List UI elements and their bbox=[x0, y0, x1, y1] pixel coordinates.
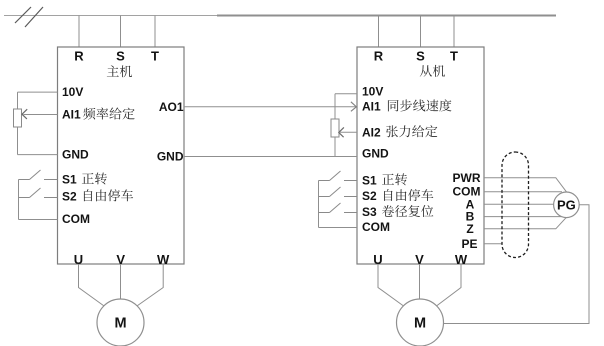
wire PE to shield bbox=[484, 243, 502, 245]
wire pot top vertical (slave) bbox=[334, 94, 336, 119]
wire 10V to potentiometer (slave) bbox=[335, 93, 357, 95]
terminal labels R S T (master) bbox=[74, 49, 159, 64]
inverter U1 master box bbox=[58, 47, 185, 264]
wire 10V to potentiometer (master) bbox=[18, 91, 58, 93]
arrow wiper RP1 bbox=[22, 109, 27, 119]
wire R drop (slave) bbox=[378, 16, 380, 48]
wire PWR to PG bbox=[484, 178, 567, 192]
svg-text:S2: S2 bbox=[62, 190, 77, 204]
terminal labels U V W (slave) bbox=[373, 252, 468, 267]
arrow wiper RP2 bbox=[339, 127, 344, 137]
wire W phase (slave) bbox=[437, 264, 461, 306]
wire GND return (master) bbox=[18, 154, 58, 156]
svg-text:S: S bbox=[116, 49, 125, 64]
switch S1 (slave) bbox=[319, 171, 358, 181]
switch S1 (master) bbox=[19, 170, 58, 180]
terminal labels U V W (master) bbox=[74, 252, 170, 267]
svg-text:COM: COM bbox=[362, 220, 390, 234]
label 卷径复位 bbox=[382, 205, 433, 217]
svg-text:10V: 10V bbox=[62, 85, 83, 99]
wire pot bottom vertical (master) bbox=[17, 127, 19, 155]
svg-text:AI2: AI2 bbox=[362, 125, 381, 139]
switch S2 (master) bbox=[19, 188, 58, 198]
potentiometer RP1 bbox=[14, 109, 22, 127]
power bus L (thick segment) bbox=[217, 15, 556, 17]
svg-text:S3: S3 bbox=[362, 205, 377, 219]
svg-text:PE: PE bbox=[461, 237, 477, 251]
label 正转 (slave) bbox=[382, 173, 407, 185]
wire U phase (master) bbox=[79, 264, 104, 306]
wire S drop (slave) bbox=[420, 16, 422, 48]
svg-text:AI1: AI1 bbox=[362, 100, 381, 114]
wire COM (master) bbox=[19, 219, 58, 221]
svg-text:PWR: PWR bbox=[453, 171, 481, 185]
svg-text:PG: PG bbox=[557, 197, 576, 212]
svg-text:Z: Z bbox=[466, 222, 473, 236]
svg-text:S2: S2 bbox=[362, 189, 377, 203]
power bus L (thin left segment) bbox=[4, 15, 217, 17]
wire COM (slave) bbox=[319, 227, 358, 229]
motor M1 bbox=[97, 299, 144, 346]
svg-text:R: R bbox=[74, 49, 84, 64]
wire W phase (master) bbox=[137, 264, 163, 306]
motor M2 bbox=[397, 299, 444, 346]
svg-text:M: M bbox=[414, 316, 426, 332]
arrow into AI1 bbox=[351, 102, 357, 112]
svg-text:S1: S1 bbox=[62, 173, 77, 187]
wire AI1 wiper (master) bbox=[24, 114, 58, 116]
shield capsule (dashed) bbox=[502, 152, 529, 258]
svg-text:10V: 10V bbox=[362, 85, 383, 99]
svg-text:GND: GND bbox=[62, 148, 89, 162]
svg-text:R: R bbox=[374, 49, 384, 64]
label 自由停车 (slave) bbox=[384, 189, 433, 201]
svg-text:T: T bbox=[151, 49, 159, 64]
terminal labels R S T (slave) bbox=[374, 49, 458, 64]
wire pot top vertical (master) bbox=[17, 92, 19, 109]
switch S3 (slave) bbox=[319, 203, 358, 213]
svg-text:S: S bbox=[416, 49, 425, 64]
wire S drop (master) bbox=[120, 16, 122, 48]
wire V phase (master) bbox=[120, 264, 122, 299]
potentiometer RP2 bbox=[331, 119, 339, 137]
svg-text:AI1: AI1 bbox=[62, 108, 81, 122]
svg-text:GND: GND bbox=[157, 149, 184, 163]
wire switch bus vertical (slave) bbox=[318, 181, 320, 228]
label 自由停车 (master) bbox=[84, 189, 133, 201]
svg-text:COM: COM bbox=[62, 212, 90, 226]
label 主机 (master) bbox=[107, 65, 132, 77]
svg-text:GND: GND bbox=[362, 147, 389, 161]
label 正转 (master) bbox=[82, 172, 107, 184]
label 张力给定 bbox=[386, 125, 437, 137]
svg-text:M: M bbox=[114, 316, 126, 332]
label 从机 (slave) bbox=[420, 65, 445, 77]
wire T drop (slave) bbox=[453, 16, 455, 48]
bus break symbol bbox=[15, 7, 43, 27]
wire pot bottom vertical (slave) bbox=[334, 137, 336, 157]
wire T drop (master) bbox=[154, 16, 156, 48]
wire R drop (master) bbox=[78, 16, 80, 48]
wire GND link bbox=[184, 156, 357, 158]
wire COM to PG bbox=[484, 191, 562, 193]
svg-text:AO1: AO1 bbox=[159, 100, 184, 114]
wire U phase (slave) bbox=[378, 264, 403, 306]
wire AI2 wiper (slave) bbox=[340, 131, 357, 133]
wire AO1 to AI1 bbox=[184, 106, 356, 108]
svg-text:S1: S1 bbox=[362, 173, 377, 187]
label 频率给定 bbox=[83, 107, 134, 119]
wire Z to PG bbox=[484, 217, 567, 229]
inverter U2 slave box bbox=[357, 47, 484, 264]
wire A to PG bbox=[484, 203, 554, 205]
wire V phase (slave) bbox=[419, 264, 421, 299]
wire switch bus vertical (master) bbox=[18, 180, 20, 220]
switch S2 (slave) bbox=[319, 187, 358, 197]
wire PG to motor bbox=[444, 205, 590, 324]
encoder PG bbox=[554, 192, 580, 218]
svg-text:T: T bbox=[450, 49, 458, 64]
label 同步线速度 bbox=[388, 99, 452, 111]
wire B to PG bbox=[484, 216, 562, 218]
